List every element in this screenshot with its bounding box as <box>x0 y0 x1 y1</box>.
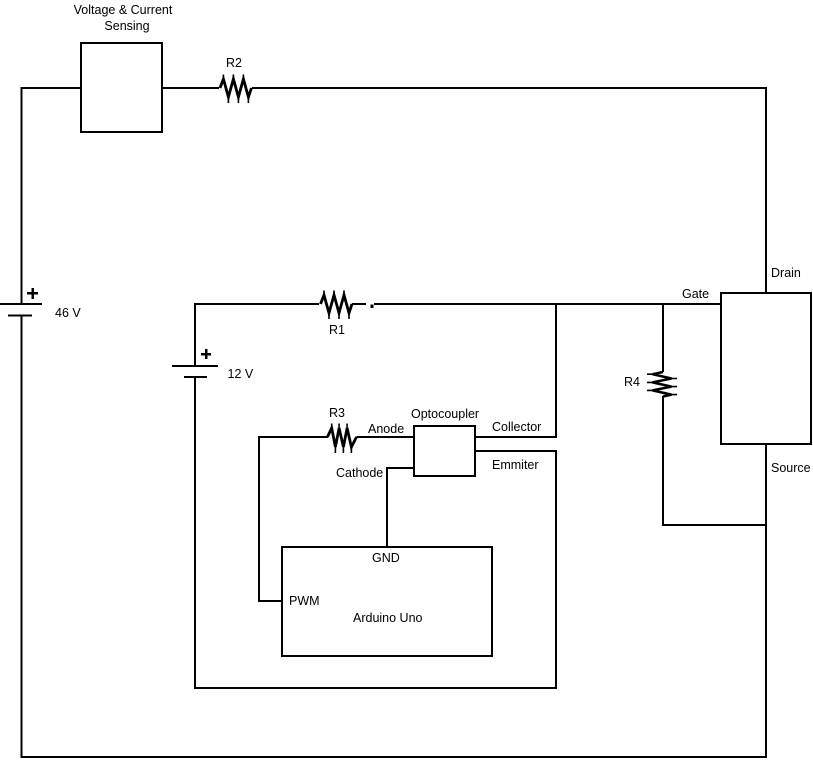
svg-text:Arduino Uno: Arduino Uno <box>353 611 423 625</box>
wire emitter horizontal <box>475 450 557 452</box>
svg-text:12 V: 12 V <box>228 367 254 381</box>
resistor R3 <box>327 424 356 454</box>
svg-text:R4: R4 <box>624 375 640 389</box>
Arduino Uno box <box>282 547 492 656</box>
wire R4 top lead <box>662 303 664 372</box>
svg-text:Voltage & Current: Voltage & Current <box>74 3 173 17</box>
stray tick after R1 <box>371 305 374 309</box>
svg-text:R2: R2 <box>226 56 242 70</box>
wire 12V bottom lead / inner left rail <box>194 377 196 689</box>
MOSFET block box <box>721 293 811 444</box>
wire cathode horizontal <box>387 467 414 469</box>
wire drain vertical <box>765 87 767 292</box>
svg-text:GND: GND <box>372 551 400 565</box>
svg-text:R1: R1 <box>329 323 345 337</box>
wire anode segment left <box>259 436 328 438</box>
svg-text:46 V: 46 V <box>55 306 81 320</box>
optocoupler box <box>414 426 475 476</box>
wire PWM horizontal <box>259 600 282 602</box>
battery 46V positive plate <box>0 303 42 305</box>
wire cathode vertical to GND <box>386 467 388 547</box>
wire collector horizontal <box>475 436 557 438</box>
wire PWM vertical <box>258 436 260 602</box>
wire gate rail middle segment <box>352 303 366 305</box>
svg-text:Collector: Collector <box>492 420 541 434</box>
wire gate rail left segment <box>195 303 319 305</box>
battery 12V negative plate <box>184 376 207 378</box>
wire inner bottom rail <box>194 687 557 689</box>
wire gate rail right segment <box>374 303 721 305</box>
battery 12V positive plate <box>172 365 218 367</box>
wire collector vertical <box>555 303 557 438</box>
wire left vertical lower <box>21 315 23 758</box>
svg-text:Sensing: Sensing <box>104 19 149 33</box>
svg-text:Source: Source <box>771 461 811 475</box>
wire emitter vertical <box>555 451 557 689</box>
svg-text:PWM: PWM <box>289 594 320 608</box>
svg-text:Anode: Anode <box>368 422 404 436</box>
svg-text:Emmiter: Emmiter <box>492 458 539 472</box>
battery 12V plus sign <box>201 349 211 359</box>
svg-text:Optocoupler: Optocoupler <box>411 407 479 421</box>
wire left vertical upper <box>21 87 23 303</box>
wire bottom rail <box>21 756 768 758</box>
battery 46V plus sign <box>27 288 38 299</box>
wire top-left horizontal <box>21 87 82 89</box>
resistor R4 <box>647 372 677 397</box>
wire anode segment right <box>357 436 415 438</box>
svg-text:R3: R3 <box>329 406 345 420</box>
sensing box (Voltage & Current Sensing block) <box>81 43 162 132</box>
wire R4 bottom lead <box>662 396 664 526</box>
resistor R1 <box>321 291 353 320</box>
wire R4 to source horizontal <box>662 524 766 526</box>
battery 46V negative plate <box>8 315 32 317</box>
wire source vertical <box>765 445 767 757</box>
wire sensing box to R2 <box>162 87 219 89</box>
svg-text:Drain: Drain <box>771 266 801 280</box>
label Voltage & Current Sensing <box>74 3 173 33</box>
wire 12V battery top lead <box>194 303 196 366</box>
resistor R2 <box>220 75 252 104</box>
svg-text:Cathode: Cathode <box>336 466 383 480</box>
wire R2 to drain corner <box>252 87 767 89</box>
svg-text:Gate: Gate <box>682 287 709 301</box>
